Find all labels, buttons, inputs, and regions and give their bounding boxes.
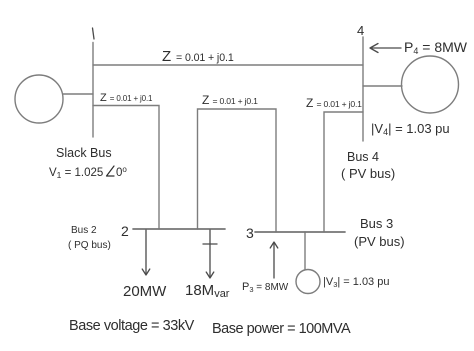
svg-text:Bus 3: Bus 3 xyxy=(360,216,393,231)
svg-text:(PV bus): (PV bus) xyxy=(354,234,405,249)
svg-text:Slack Bus: Slack Bus xyxy=(56,146,112,160)
svg-text:( PQ bus): ( PQ bus) xyxy=(68,240,111,251)
svg-text:Z = 0.01 + j0.1: Z = 0.01 + j0.1 xyxy=(202,93,258,107)
svg-text:Bus 2: Bus 2 xyxy=(71,225,97,236)
svg-text:2: 2 xyxy=(121,223,129,239)
svg-text:|V4| = 1.03 pu: |V4| = 1.03 pu xyxy=(371,121,450,137)
svg-text:Base power = 100MVA: Base power = 100MVA xyxy=(212,321,351,337)
svg-text:|V3| = 1.03 pu: |V3| = 1.03 pu xyxy=(323,276,389,289)
svg-text:P3 = 8MW: P3 = 8MW xyxy=(242,281,289,294)
svg-text:( PV bus): ( PV bus) xyxy=(341,166,395,181)
svg-text:20MW: 20MW xyxy=(123,283,167,300)
svg-text:Bus 4: Bus 4 xyxy=(347,150,379,164)
svg-text:3: 3 xyxy=(246,225,254,241)
svg-text:Base voltage = 33kV: Base voltage = 33kV xyxy=(69,318,195,334)
svg-text:Z = 0.01 + j0.1: Z = 0.01 + j0.1 xyxy=(306,96,362,110)
svg-text:4: 4 xyxy=(357,23,364,38)
svg-text:Z = 0.01 + j0.1: Z = 0.01 + j0.1 xyxy=(100,92,153,104)
